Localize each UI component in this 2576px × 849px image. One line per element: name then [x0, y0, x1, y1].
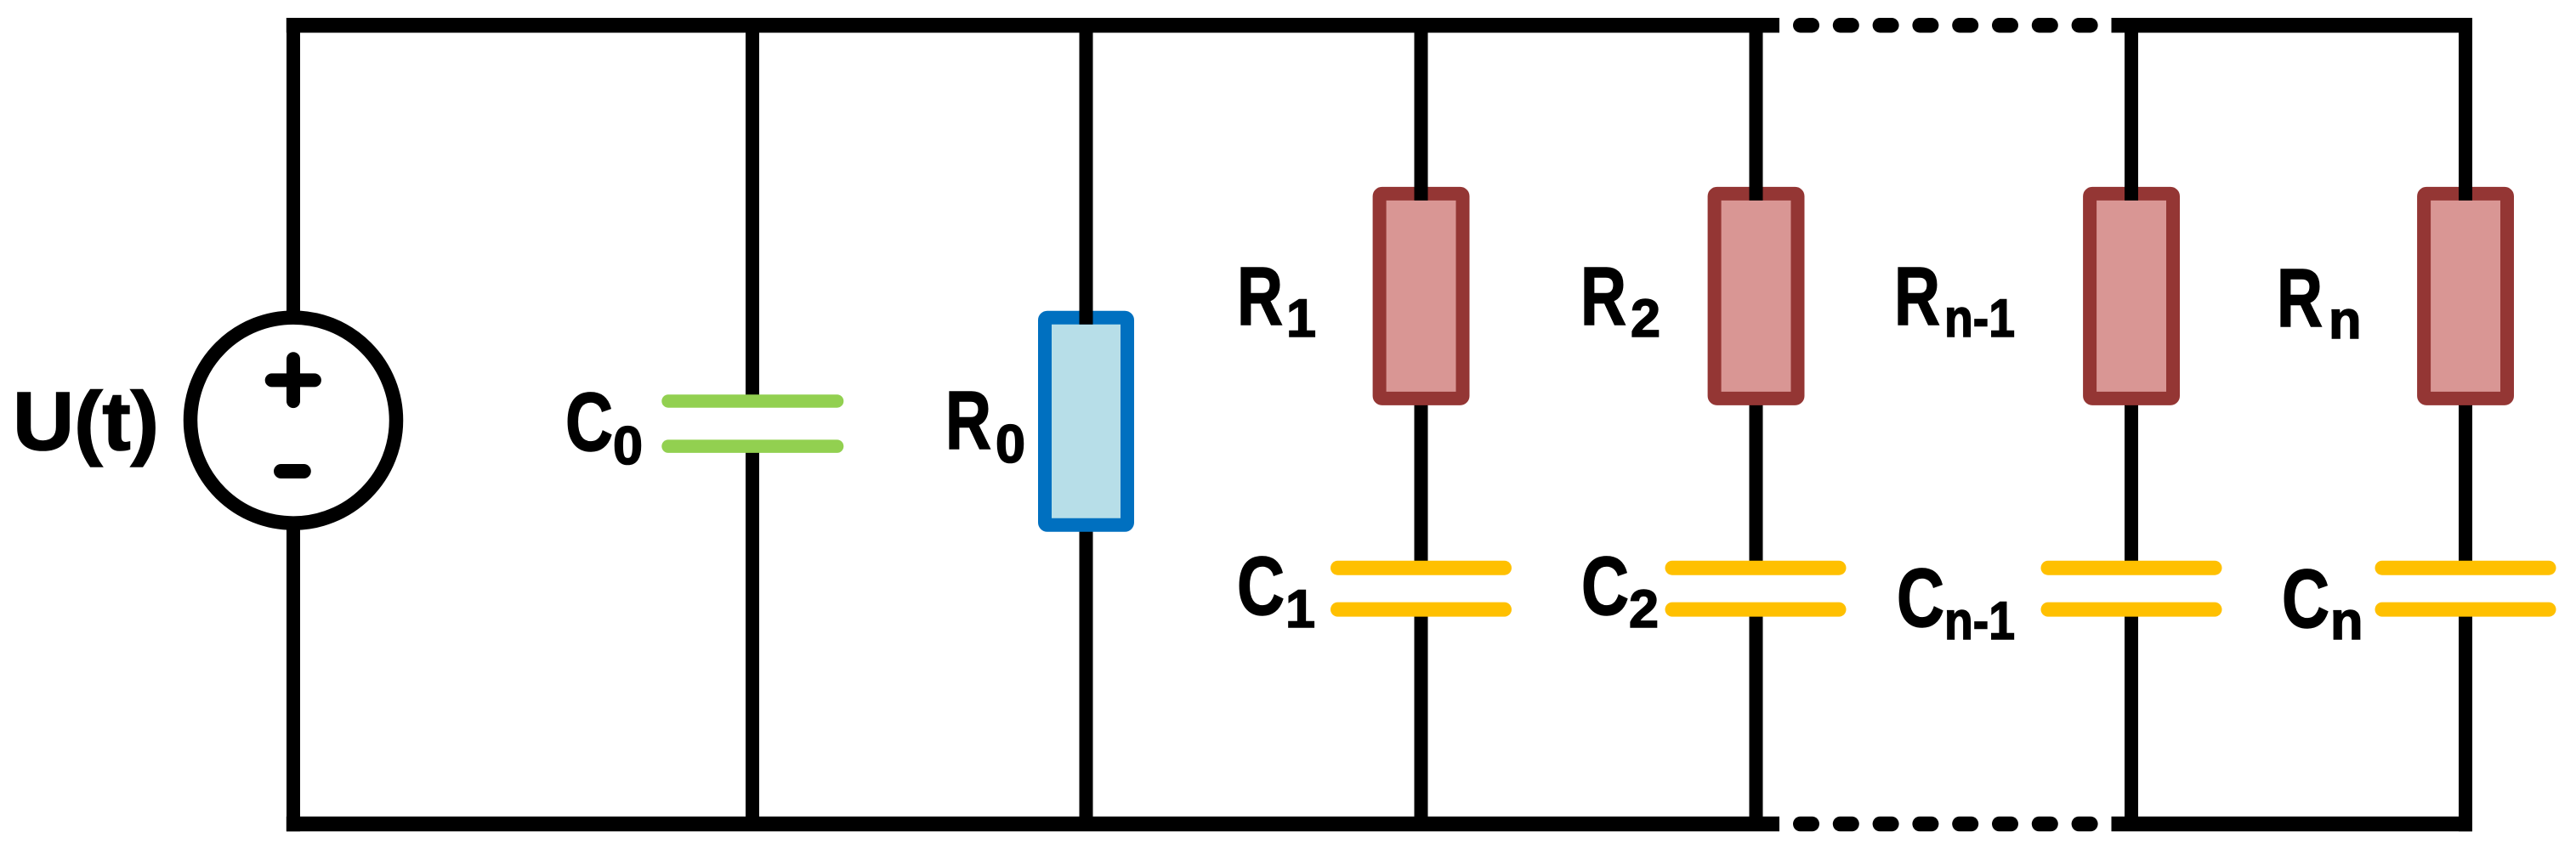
- capacitor C1 top plate: [1331, 561, 1512, 575]
- wire stub over R1 top border: [1415, 174, 1428, 201]
- wire bottom rail dashed segment: [1793, 817, 2098, 832]
- svg-text:U(t): U(t): [13, 375, 159, 467]
- capacitor Cn bottom plate: [2375, 603, 2556, 617]
- wire C0 branch bottom segment: [746, 447, 759, 831]
- svg-text:C: C: [2282, 552, 2329, 645]
- svg-text:R: R: [1894, 250, 1940, 342]
- wire stub over Rn-1 top border: [2125, 174, 2138, 201]
- wire R0 branch: [1080, 19, 1093, 831]
- svg-text:C: C: [1237, 540, 1285, 632]
- svg-text:2: 2: [1631, 289, 1660, 348]
- svg-text:R: R: [1580, 250, 1626, 342]
- wire bottom rail left solid segment: [287, 817, 1779, 832]
- resistor R2: [1715, 194, 1798, 399]
- capacitor Cn-1 top plate: [2041, 561, 2222, 575]
- svg-text:n: n: [2329, 291, 2361, 350]
- voltage source minus sign: [281, 464, 304, 478]
- wire top rail left solid segment: [287, 18, 1779, 33]
- capacitor C0 top plate: [661, 394, 843, 408]
- wire Rn-1/Cn-1 branch top segment: [2125, 19, 2138, 568]
- svg-text:R: R: [945, 374, 991, 467]
- svg-text:n-1: n-1: [1944, 591, 2015, 651]
- wire R2/C2 branch top segment: [1750, 19, 1763, 568]
- wire stub over R2 top border: [1750, 174, 1763, 201]
- wire R2/C2 branch bottom segment: [1750, 609, 1763, 831]
- wire left branch through source U(t): [287, 18, 300, 831]
- capacitor C1 bottom plate: [1331, 603, 1512, 617]
- wire R1/C1 branch top segment: [1415, 19, 1428, 568]
- svg-text:1: 1: [1285, 580, 1315, 639]
- capacitor C2 bottom plate: [1665, 603, 1847, 617]
- wire R1/C1 branch bottom segment: [1415, 609, 1428, 831]
- wire right edge Rn/Cn branch top segment: [2459, 18, 2472, 568]
- capacitor C0 bottom plate: [661, 439, 843, 453]
- resistor Rn-1: [2090, 194, 2173, 399]
- svg-text:C: C: [565, 376, 613, 468]
- voltage source U(t) circle: [190, 318, 396, 524]
- wire Rn-1/Cn-1 branch bottom segment: [2125, 609, 2138, 831]
- svg-text:0: 0: [996, 415, 1025, 474]
- wire stub over R0 top border: [1080, 297, 1093, 325]
- svg-text:C: C: [1581, 540, 1629, 632]
- wire top rail right solid segment: [2112, 18, 2472, 33]
- svg-text:0: 0: [613, 416, 643, 476]
- capacitor Cn-1 bottom plate: [2041, 603, 2222, 617]
- svg-text:R: R: [1237, 250, 1283, 342]
- svg-text:2: 2: [1629, 580, 1659, 639]
- voltage source plus sign: [272, 359, 315, 401]
- capacitor C2 top plate: [1665, 561, 1847, 575]
- svg-text:n: n: [2330, 591, 2363, 651]
- svg-text:n-1: n-1: [1944, 289, 2015, 348]
- wire right edge Rn/Cn branch bottom segment: [2459, 609, 2472, 831]
- wire bottom rail right solid segment: [2112, 817, 2472, 832]
- resistor R0: [1045, 318, 1127, 525]
- capacitor Cn top plate: [2375, 561, 2556, 575]
- svg-text:C: C: [1897, 552, 1944, 644]
- wire top rail dashed segment: [1793, 18, 2098, 33]
- svg-text:R: R: [2277, 252, 2323, 344]
- wire C0 branch top segment: [746, 19, 759, 400]
- svg-text:1: 1: [1286, 289, 1316, 348]
- resistor Rn: [2424, 194, 2507, 399]
- resistor R1: [1380, 194, 1463, 399]
- wire stub over Rn top border: [2459, 174, 2472, 201]
